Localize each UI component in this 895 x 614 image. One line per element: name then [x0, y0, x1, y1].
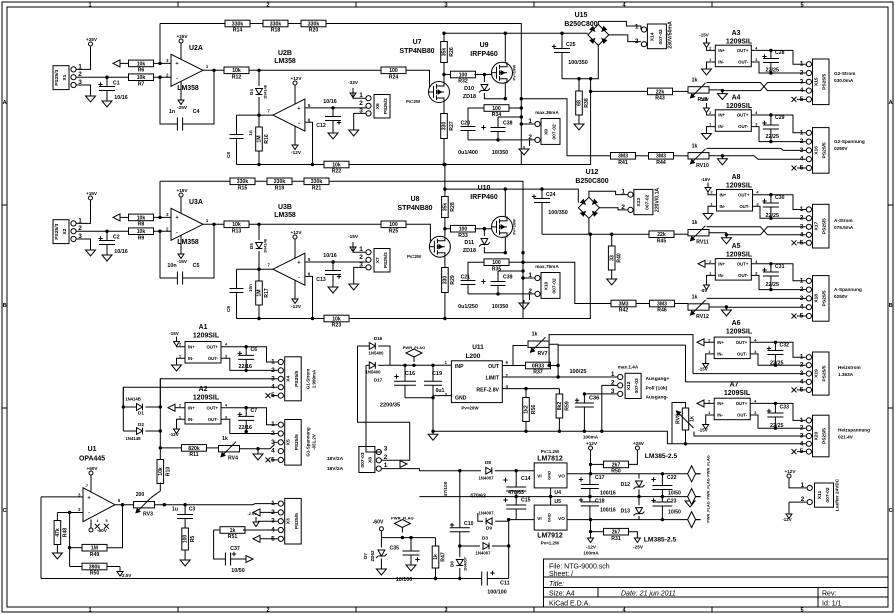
junction U11 gnd	[431, 396, 434, 399]
wire R11 line	[160, 447, 181, 449]
svg-text:10/50: 10/50	[231, 568, 244, 574]
wire X8 pin1 to VI line	[382, 469, 435, 471]
junction R27 bottom	[442, 163, 445, 166]
junction C36 top	[583, 392, 586, 395]
svg-text:Pv=20W: Pv=20W	[512, 219, 517, 235]
wire bridge2 top to X13 pin1	[589, 191, 628, 197]
svg-text:B: B	[889, 303, 893, 309]
svg-text:R29: R29	[450, 275, 456, 285]
svg-text:D11: D11	[464, 240, 474, 246]
title block box	[544, 559, 889, 607]
svg-text:OUT-: OUT-	[739, 204, 750, 209]
wire X10 pin2 gnd	[530, 294, 535, 300]
svg-text:PS25/5: PS25/5	[822, 428, 828, 444]
junction C7 top	[245, 406, 248, 409]
junction D1 left	[122, 405, 125, 408]
svg-text:X16: X16	[814, 146, 820, 155]
HV rail top	[444, 32, 588, 34]
wire bridge right to X14 pin2	[609, 35, 641, 42]
capacitor C19	[432, 365, 434, 381]
junction X9 pin1	[520, 122, 523, 125]
wire R51 line	[214, 529, 222, 531]
capacitor C5 feedback	[183, 224, 214, 278]
svg-text:C13: C13	[316, 277, 326, 283]
wire fb vertical span	[520, 99, 522, 165]
svg-text:R5: R5	[190, 536, 196, 543]
svg-text:R12: R12	[232, 75, 242, 81]
svg-text:1M: 1M	[257, 135, 263, 142]
svg-text:D6: D6	[450, 561, 455, 567]
junction R17 bottom	[257, 317, 260, 320]
connector X4	[271, 357, 301, 401]
svg-text:R56: R56	[531, 405, 537, 415]
pwrflag minus12	[688, 512, 701, 528]
connector X16	[800, 128, 829, 174]
svg-text:GND: GND	[547, 513, 552, 522]
wire X12 pin1 line	[558, 376, 617, 378]
svg-text:Poll (10k): Poll (10k)	[646, 385, 668, 391]
svg-text:3: 3	[444, 608, 447, 614]
svg-text:1209SIL: 1209SIL	[193, 333, 220, 340]
wire sense to R43	[591, 90, 648, 92]
svg-text:PS25/5: PS25/5	[822, 218, 828, 234]
junction pwrflag	[412, 364, 415, 367]
junction C39 top	[521, 269, 524, 272]
A5 in- power	[707, 275, 712, 280]
svg-text:R46: R46	[657, 308, 667, 314]
wire U9 drain	[504, 33, 506, 62]
wire R28 top	[444, 165, 446, 197]
svg-text:VO: VO	[558, 474, 565, 479]
U1 power down	[90, 520, 92, 529]
junction R29 bottom	[443, 317, 446, 320]
svg-text:PWR_FLAG: PWR_FLAG	[707, 478, 711, 499]
svg-text:1209SIL: 1209SIL	[726, 103, 753, 110]
svg-text:1: 1	[384, 462, 388, 469]
resistor R49	[82, 544, 107, 558]
A4 in+ power	[707, 109, 712, 116]
svg-text:VI: VI	[537, 474, 541, 479]
svg-text:100mA: 100mA	[583, 435, 599, 440]
svg-text:C7: C7	[251, 408, 258, 414]
A7 in- power	[706, 415, 711, 420]
wire R8 to U3A plus	[154, 216, 172, 218]
svg-text:007-03: 007-03	[360, 452, 366, 468]
wire R43 to RV9	[673, 90, 689, 92]
svg-text:C19: C19	[432, 371, 442, 377]
svg-text:4: 4	[800, 304, 804, 311]
connector X12	[611, 371, 641, 399]
svg-text:-051.2V: -051.2V	[312, 434, 317, 450]
resistor R37	[526, 362, 551, 376]
svg-text:22k: 22k	[657, 232, 666, 238]
wire 330k rail drop ch2	[159, 181, 161, 217]
svg-text:-12V: -12V	[782, 517, 791, 522]
svg-text:+12V: +12V	[290, 230, 302, 235]
input arrow X3 pin2	[253, 509, 260, 516]
svg-text:1.363A: 1.363A	[838, 372, 854, 377]
junction R16 bottom	[257, 163, 260, 166]
svg-text:Pv=2W: Pv=2W	[407, 254, 421, 259]
resistor R17	[258, 269, 260, 281]
svg-text:A2: A2	[199, 386, 208, 393]
svg-text:47k: 47k	[55, 528, 61, 537]
svg-text:B: B	[3, 303, 7, 309]
resistor R21	[304, 178, 329, 192]
svg-text:PWR_FLAG: PWR_FLAG	[707, 455, 711, 476]
junction D1 right	[159, 405, 162, 408]
svg-text:47/100: 47/100	[443, 481, 449, 496]
svg-text:STP4NB80: STP4NB80	[397, 205, 432, 212]
resistor R42	[611, 300, 636, 314]
junction HV minus	[589, 77, 592, 80]
svg-text:1209SIL: 1209SIL	[724, 390, 751, 397]
wire X7 pin3 to ground	[354, 267, 366, 281]
ground C12	[328, 130, 338, 139]
svg-text:D3: D3	[482, 536, 488, 541]
title block lines	[544, 576, 889, 578]
wire U1 left loop	[40, 497, 42, 579]
svg-text:10k: 10k	[137, 75, 146, 81]
svg-text:U3A: U3A	[189, 199, 203, 206]
wire U1 minus input	[57, 512, 83, 514]
svg-text:1N4148: 1N4148	[126, 436, 142, 441]
svg-text:Heizspannung: Heizspannung	[838, 428, 870, 433]
svg-text:C3: C3	[189, 507, 196, 513]
svg-text:A7: A7	[730, 382, 739, 389]
svg-text:R21: R21	[312, 186, 322, 192]
svg-text:A-Strom: A-Strom	[834, 218, 853, 223]
nc X15 pin5	[797, 98, 806, 100]
wire A7 out+ to X20 pin1	[754, 403, 806, 420]
svg-text:OUT+: OUT+	[736, 340, 748, 345]
capacitor C1	[99, 87, 115, 91]
power +12V mid	[590, 450, 592, 456]
svg-text:X10: X10	[543, 281, 549, 290]
U1 power up	[90, 481, 92, 492]
zener D12 LM385	[638, 474, 640, 479]
svg-text:100: 100	[389, 68, 398, 74]
svg-text:075.5mA: 075.5mA	[834, 225, 854, 230]
svg-text:R22: R22	[332, 169, 342, 175]
wire R42 R46	[636, 303, 650, 305]
connector X19	[800, 352, 829, 395]
resistor R46	[650, 300, 675, 314]
svg-text:PS25/3: PS25/3	[383, 252, 389, 268]
input arrow at R8	[113, 214, 120, 221]
wire RV11 crossing pair	[707, 227, 806, 235]
svg-text:G2-Strom: G2-Strom	[834, 71, 855, 76]
wire U10 source	[504, 237, 506, 252]
capacitor C31	[770, 264, 772, 272]
svg-text:OUT-: OUT-	[737, 352, 748, 357]
wire R27 bottom	[443, 139, 445, 165]
svg-text:10k: 10k	[332, 162, 341, 168]
wire D16 cathode down	[389, 346, 391, 365]
junction C14 top	[515, 469, 518, 472]
A8 in+ power	[708, 188, 713, 195]
junction HV2 minus	[589, 233, 592, 236]
330k feedback rail	[160, 24, 521, 99]
junction C2 node	[105, 230, 108, 233]
svg-text:0u1: 0u1	[436, 388, 445, 394]
svg-text:IRFP460: IRFP460	[470, 194, 498, 201]
svg-text:1N4148: 1N4148	[263, 238, 268, 253]
wire fb vertical ch2 span	[522, 253, 524, 319]
junction R38 top	[577, 77, 580, 80]
svg-text:10k: 10k	[332, 316, 341, 322]
svg-text:IRFP460: IRFP460	[470, 51, 498, 58]
svg-text:C18: C18	[595, 498, 605, 504]
svg-text:22k: 22k	[656, 89, 665, 95]
A3 in+ power	[707, 44, 712, 50]
junction D5 top	[257, 223, 260, 226]
svg-text:0u1/250: 0u1/250	[458, 304, 478, 310]
svg-text:10n: 10n	[248, 284, 253, 292]
wire R26 top	[443, 33, 445, 41]
A1 in+ power	[177, 342, 182, 347]
svg-text:U3B: U3B	[278, 204, 292, 211]
wire X1 pin2 to R7	[76, 76, 129, 78]
svg-text:PS25/5: PS25/5	[294, 513, 300, 529]
junction D12 bottom	[637, 495, 640, 498]
svg-text:35k: 35k	[443, 203, 449, 212]
wire R7 to U2A minus	[154, 76, 172, 78]
svg-text:C23: C23	[667, 499, 677, 505]
svg-text:OUT+: OUT+	[737, 48, 749, 53]
wire R50 right	[107, 566, 120, 568]
wire R45 to RV11	[674, 233, 688, 235]
svg-text:max.75mA: max.75mA	[535, 264, 559, 269]
svg-text:330k: 330k	[274, 179, 286, 185]
ground X9 pin2	[519, 146, 529, 155]
potentiometer RV3	[134, 492, 155, 518]
junction RV3 out	[163, 503, 166, 506]
resistor R33	[451, 225, 476, 239]
A5 in+ arrow	[698, 260, 705, 267]
resistor R50 2k7	[591, 463, 605, 465]
capacitor C20	[461, 127, 476, 131]
wire R6 to U2A plus	[154, 62, 172, 64]
svg-text:1: 1	[800, 354, 804, 361]
junction D6 bottom	[458, 577, 461, 580]
resistor R27	[441, 114, 455, 139]
svg-text:8k2: 8k2	[557, 402, 563, 411]
diode D3	[483, 543, 489, 550]
junction X12 pin1 line	[556, 375, 559, 378]
svg-text:1: 1	[800, 277, 804, 284]
svg-text:R23: R23	[332, 323, 342, 329]
capacitor C36	[583, 394, 585, 403]
svg-text:100: 100	[459, 72, 468, 78]
wire bridge2 right to X13 pin2	[599, 208, 627, 210]
svg-text:3: 3	[800, 223, 804, 230]
svg-text:100/100: 100/100	[487, 590, 506, 596]
svg-text:820k: 820k	[188, 446, 200, 452]
svg-text:1N5400: 1N5400	[366, 370, 382, 375]
wire RV10 pair to X16	[707, 148, 806, 150]
svg-text:R11: R11	[189, 452, 198, 458]
svg-text:OUT+: OUT+	[207, 405, 219, 410]
capacitor C11	[482, 572, 488, 586]
resistor R18	[263, 20, 288, 34]
ground D7	[376, 566, 386, 575]
svg-text:10/16: 10/16	[323, 99, 336, 105]
capacitor C23	[661, 497, 663, 502]
svg-text:C17: C17	[595, 475, 605, 481]
svg-text:ZD62: ZD62	[370, 550, 375, 561]
U5 gnd stub	[550, 497, 552, 506]
wire A7 out- to X20 pin2	[754, 415, 806, 428]
capacitor C25	[561, 33, 563, 48]
ground RV11	[721, 235, 731, 244]
resistor R32	[451, 71, 476, 85]
diode D6	[459, 546, 461, 557]
svg-text:-15V: -15V	[699, 97, 708, 102]
svg-text:A1: A1	[199, 324, 208, 331]
svg-text:G1-Strom: G1-Strom	[306, 369, 311, 389]
svg-text:4: 4	[800, 231, 804, 238]
resistor R31 2k7	[591, 531, 605, 533]
svg-text:R19: R19	[275, 186, 285, 192]
svg-text:330: 330	[443, 276, 449, 285]
svg-text:1: 1	[271, 421, 275, 428]
svg-text:Id: 1/1: Id: 1/1	[822, 601, 842, 608]
svg-text:D9: D9	[486, 526, 492, 531]
svg-text:100/350: 100/350	[568, 60, 587, 66]
wire X11 pin2b	[789, 501, 807, 503]
svg-text:C9: C9	[226, 306, 231, 312]
svg-text:68: 68	[577, 100, 583, 106]
resistor R9	[129, 228, 154, 242]
junction C30 top	[769, 193, 772, 196]
svg-text:2: 2	[621, 204, 625, 211]
svg-text:0250V: 0250V	[834, 146, 848, 151]
wire R23 to R29 node	[349, 234, 590, 318]
dcdc A1	[179, 342, 228, 364]
wire R29 bottom	[444, 293, 446, 319]
svg-text:X13: X13	[636, 198, 642, 207]
junction X12 pin2 rail	[600, 430, 603, 433]
svg-text:C16: C16	[405, 371, 415, 377]
input rail to L200	[384, 364, 451, 366]
junction R31 node	[589, 530, 592, 533]
diode D4	[258, 70, 260, 86]
svg-text:A4: A4	[732, 95, 741, 102]
resistor R13	[224, 221, 249, 235]
svg-text:3: 3	[384, 446, 388, 453]
svg-text:PS25/3: PS25/3	[383, 98, 389, 114]
svg-text:007-02: 007-02	[825, 487, 831, 503]
connector X10	[528, 272, 560, 298]
svg-text:Luefter 24VDC: Luefter 24VDC	[835, 478, 840, 511]
svg-text:-60V: -60V	[97, 528, 108, 533]
op-amp U2A	[166, 54, 209, 86]
svg-text:IN+: IN+	[718, 113, 725, 118]
svg-text:C30: C30	[775, 195, 785, 201]
svg-text:+25V: +25V	[176, 34, 188, 39]
svg-text:PWR_FLAG: PWR_FLAG	[403, 345, 426, 350]
svg-text:330k: 330k	[308, 21, 320, 27]
svg-text:-33V: -33V	[348, 80, 359, 85]
svg-text:1k: 1k	[692, 220, 698, 226]
wire X10 pin1	[523, 277, 534, 279]
svg-text:OUT-: OUT-	[738, 124, 749, 129]
wire X4 pin4 long	[123, 387, 277, 407]
svg-text:R31: R31	[611, 536, 621, 542]
capacitor C12	[332, 108, 334, 116]
svg-text:U11: U11	[472, 344, 484, 351]
potentiometer RV11	[688, 220, 709, 246]
svg-text:OUT+: OUT+	[738, 192, 750, 197]
svg-text:R45: R45	[657, 238, 667, 244]
wire U3B minus jog	[305, 276, 324, 318]
U3B power up	[294, 245, 296, 259]
wire R25 to U8 gate	[406, 224, 434, 246]
svg-text:1209SIL: 1209SIL	[726, 252, 753, 259]
svg-text:-25V: -25V	[633, 545, 644, 550]
svg-text:C38: C38	[503, 121, 513, 127]
junction U4 gnd	[549, 495, 552, 498]
wire D17 anode to X8 pin3	[366, 365, 382, 452]
wire A5 out+ to X18 pin1	[755, 264, 806, 281]
svg-text:IN-: IN-	[717, 413, 723, 418]
junction C7 bottom	[245, 430, 248, 433]
wire -12V stem	[590, 520, 592, 538]
dcdc A7	[708, 398, 757, 420]
pwrflag minus60	[394, 520, 410, 533]
wire OUT pin5	[502, 365, 513, 367]
svg-text:100/25: 100/25	[569, 369, 586, 375]
svg-text:Date: 21 jun 2011: Date: 21 jun 2011	[621, 591, 676, 598]
svg-text:max.36mA: max.36mA	[535, 110, 559, 115]
junction R49 node	[68, 546, 71, 549]
svg-text:U9: U9	[480, 42, 489, 49]
wire drain node to R32	[444, 74, 452, 76]
junction fb vertical ch2	[521, 251, 524, 254]
junction R6 node	[158, 62, 161, 65]
svg-text:-12V: -12V	[291, 150, 302, 155]
minus60 rail	[381, 537, 435, 539]
wire X11 pin2	[788, 502, 790, 509]
svg-text:R15: R15	[238, 186, 248, 192]
svg-text:X17: X17	[814, 222, 820, 231]
svg-text:1k: 1k	[692, 143, 698, 149]
svg-text:D13: D13	[621, 509, 631, 515]
junction R47 bottom	[434, 577, 437, 580]
connector X13	[621, 189, 653, 215]
svg-text:+25V: +25V	[86, 37, 98, 42]
junction R59 bottom	[558, 430, 561, 433]
junction C38 bottom	[496, 138, 499, 141]
junction minus12 node	[589, 518, 592, 521]
junction R32 left	[442, 73, 445, 76]
svg-text:VO: VO	[558, 516, 565, 521]
diode D1	[123, 406, 136, 408]
svg-text:5: 5	[800, 2, 803, 8]
svg-text:2: 2	[359, 254, 363, 261]
junction C35 top	[409, 536, 412, 539]
connector X3	[271, 498, 301, 544]
capacitor C35	[410, 538, 412, 551]
connector X11	[801, 482, 834, 507]
svg-text:D7: D7	[363, 553, 368, 559]
diode D16	[358, 345, 370, 347]
svg-text:B250C800: B250C800	[575, 178, 608, 185]
A4 in- ground	[707, 127, 712, 131]
svg-text:GND: GND	[547, 471, 552, 480]
svg-text:R16: R16	[264, 134, 270, 144]
